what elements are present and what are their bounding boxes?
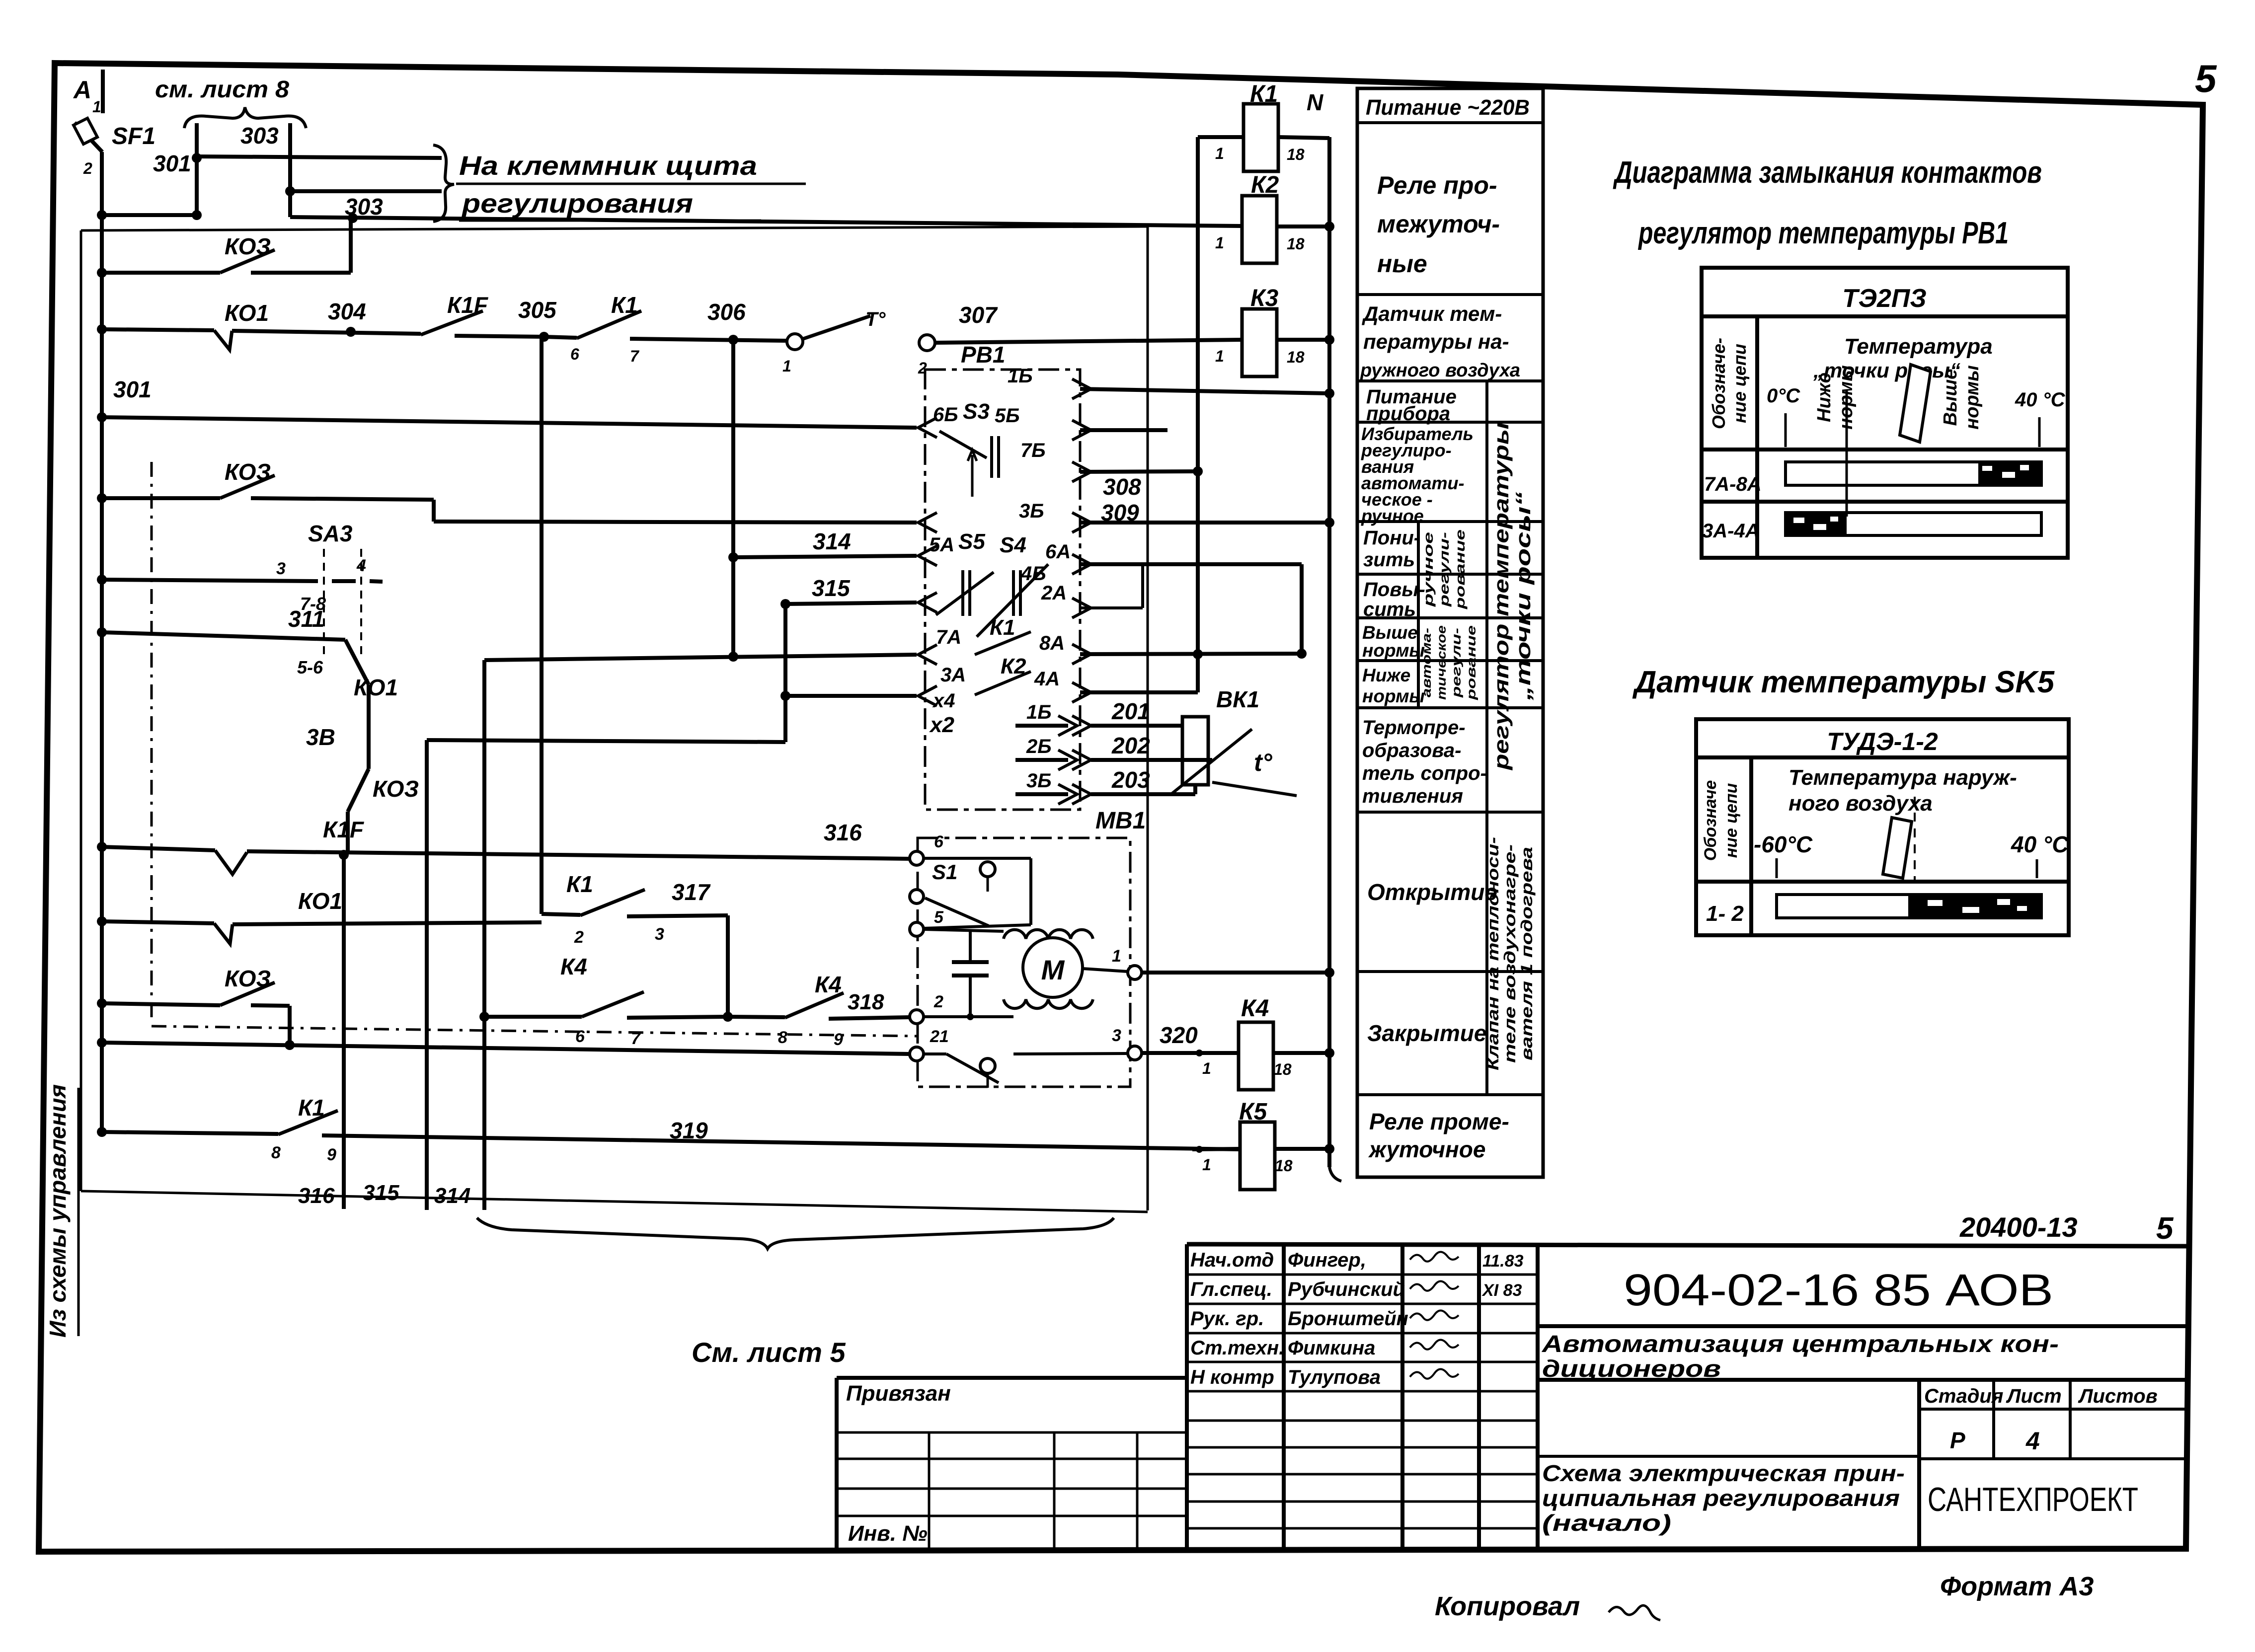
svg-text:305: 305 [518,297,557,323]
svg-text:304: 304 [328,299,366,324]
svg-text:Термопре-: Термопре- [1362,717,1466,739]
svg-text:ТЭ2ПЗ: ТЭ2ПЗ [1842,284,1927,313]
svg-text:40 °С: 40 °С [2011,831,2069,857]
svg-text:318: 318 [848,990,884,1014]
svg-text:Реле проме-: Реле проме- [1369,1109,1509,1134]
svg-text:Питание ~220В: Питание ~220В [1366,95,1530,120]
svg-text:К4: К4 [815,972,842,997]
svg-text:6: 6 [575,1027,585,1046]
svg-text:ручное: ручное [1421,532,1436,607]
svg-text:РВ1: РВ1 [961,342,1005,368]
svg-text:КО1: КО1 [354,675,398,700]
svg-text:1: 1 [1215,145,1224,162]
svg-text:2Б: 2Б [1026,736,1052,757]
svg-text:ружного воздуха: ружного воздуха [1360,360,1520,381]
svg-text:18: 18 [1287,235,1305,253]
svg-text:Диаграмма замыкания контакто: Диаграмма замыкания контактов [1613,155,2042,190]
svg-text:1: 1 [1215,347,1224,365]
svg-text:ные: ные [1377,250,1427,278]
svg-text:1Б: 1Б [1008,365,1033,387]
svg-text:7А-8А: 7А-8А [1704,473,1762,495]
svg-text:5: 5 [2156,1211,2174,1246]
svg-text:Рубчинский: Рубчинский [1288,1278,1405,1300]
svg-text:3В: 3В [306,724,335,750]
svg-text:тивления: тивления [1362,785,1463,807]
svg-text:1: 1 [1202,1156,1211,1174]
svg-text:регулирования: регулирования [461,189,693,219]
svg-text:320: 320 [1160,1022,1198,1048]
svg-text:Фимкина: Фимкина [1288,1337,1375,1359]
svg-text:автома-: автома- [1420,628,1434,697]
svg-text:Ниже: Ниже [1362,665,1410,685]
svg-text:2: 2 [933,992,943,1011]
svg-text:ние цепи: ние цепи [1722,783,1741,858]
svg-text:Листов: Листов [2078,1385,2158,1407]
svg-text:4А: 4А [1034,668,1060,690]
svg-text:203: 203 [1111,767,1150,793]
svg-text:ципиальная регулирования: ципиальная регулирования [1542,1485,1900,1511]
svg-text:8: 8 [271,1143,281,1162]
svg-text:5: 5 [2195,57,2217,100]
svg-text:Закрытие: Закрытие [1367,1020,1486,1046]
svg-text:317: 317 [672,879,711,905]
svg-text:308: 308 [1103,474,1141,500]
svg-text:х2: х2 [929,713,954,737]
svg-text:307: 307 [959,302,998,328]
svg-text:1: 1 [1112,947,1121,966]
svg-text:3: 3 [1112,1026,1121,1045]
svg-text:21: 21 [930,1027,949,1046]
svg-text:ВК1: ВК1 [1216,686,1259,712]
svg-text:Лист: Лист [2006,1385,2062,1407]
svg-text:3: 3 [655,925,664,944]
svg-text:вателя 1 подогрева: вателя 1 подогрева [1518,847,1536,1060]
svg-text:КО1: КО1 [225,300,269,326]
svg-text:5: 5 [934,908,944,927]
svg-text:7Б: 7Б [1020,440,1046,461]
svg-text:319: 319 [670,1118,708,1143]
svg-text:образова-: образова- [1362,740,1461,761]
svg-text:Обозначе-: Обозначе- [1709,338,1729,429]
svg-text:К1: К1 [611,292,638,318]
svg-text:САНТЕХПРОЕКТ: САНТЕХПРОЕКТ [1928,1481,2138,1518]
svg-text:теле воздухонагре-: теле воздухонагре- [1501,844,1519,1063]
svg-text:нормы: нормы [1836,365,1857,429]
svg-text:нормы: нормы [1362,640,1425,661]
svg-text:Выше: Выше [1940,369,1961,426]
svg-text:9: 9 [327,1145,336,1164]
svg-text:Бронштейн: Бронштейн [1288,1308,1408,1330]
svg-text:201: 201 [1111,698,1150,724]
svg-text:пературы на-: пературы на- [1363,330,1509,353]
svg-text:8: 8 [778,1028,787,1047]
svg-text:3А-4А: 3А-4А [1702,520,1760,542]
svg-text:Формат А3: Формат А3 [1940,1572,2094,1601]
svg-text:309: 309 [1101,500,1139,526]
svg-text:18: 18 [1287,146,1305,163]
svg-text:К1: К1 [990,615,1015,640]
svg-text:(начало): (начало) [1542,1510,1671,1536]
svg-text:Обозначе: Обозначе [1701,780,1720,861]
svg-text:КОЗ: КОЗ [225,459,271,485]
svg-text:1: 1 [1215,234,1224,252]
svg-text:4: 4 [356,556,366,575]
svg-text:нормы: нормы [1362,686,1425,706]
svg-text:К1: К1 [566,871,593,897]
svg-text:311: 311 [288,606,324,632]
svg-text:202: 202 [1111,733,1150,758]
svg-text:4: 4 [2025,1427,2040,1455]
svg-text:рование: рование [1453,529,1468,609]
svg-text:Тулупова: Тулупова [1288,1366,1381,1388]
svg-text:316: 316 [824,820,862,845]
svg-text:См. лист 5: См. лист 5 [692,1337,846,1368]
svg-text:МВ1: МВ1 [1095,808,1146,834]
svg-text:5-6: 5-6 [297,657,323,677]
svg-text:306: 306 [707,299,746,325]
svg-text:3А: 3А [940,664,966,686]
svg-text:Стадия: Стадия [1924,1385,2003,1407]
svg-text:Инв. №: Инв. № [848,1521,928,1546]
svg-text:Температура наруж-: Температура наруж- [1788,765,2017,790]
svg-text:КОЗ: КОЗ [225,966,271,991]
svg-text:х4: х4 [932,690,955,712]
svg-text:межуточ-: межуточ- [1377,210,1500,238]
svg-text:7: 7 [631,1029,641,1048]
svg-text:1: 1 [92,98,101,116]
svg-text:7: 7 [630,347,640,365]
svg-text:3Б: 3Б [1026,770,1052,792]
svg-text:S4: S4 [1000,533,1026,557]
svg-text:На клеммник щита: На клеммник щита [459,151,757,181]
svg-text:Датчик температуры SK5: Датчик температуры SK5 [1632,665,2055,699]
svg-text:Ниже: Ниже [1814,373,1835,422]
svg-text:регулятор температуры РВ1: регулятор температуры РВ1 [1637,216,2009,250]
svg-text:Автоматизация центральных ко: Автоматизация центральных кон- [1542,1331,2059,1357]
svg-text:7А: 7А [936,626,961,648]
svg-text:Температура: Температура [1844,334,1993,359]
svg-text:9: 9 [834,1030,843,1049]
svg-text:t°: t° [1254,749,1273,776]
svg-text:Н контр: Н контр [1190,1366,1274,1388]
svg-text:SF1: SF1 [112,123,156,150]
svg-text:К4: К4 [560,954,587,979]
svg-text:18: 18 [1275,1157,1293,1175]
svg-text:Т°: Т° [865,308,886,330]
svg-text:2: 2 [83,159,92,177]
svg-text:6: 6 [934,832,944,851]
svg-text:жуточное: жуточное [1368,1136,1485,1162]
svg-text:2А: 2А [1041,582,1067,604]
svg-text:S5: S5 [958,529,985,554]
svg-text:ТУДЭ-1-2: ТУДЭ-1-2 [1827,728,1938,755]
svg-text:316: 316 [298,1184,335,1208]
svg-text:1: 1 [1202,1059,1211,1077]
svg-text:20400-13: 20400-13 [1959,1211,2078,1243]
svg-text:Рук. гр.: Рук. гр. [1190,1308,1264,1330]
svg-text:Реле про-: Реле про- [1377,171,1497,199]
svg-text:314: 314 [434,1184,470,1208]
svg-text:К1F: К1F [447,292,489,318]
svg-text:Клапан на теплоноси-: Клапан на теплоноси- [1484,837,1502,1070]
svg-text:1- 2: 1- 2 [1706,901,1744,926]
svg-text:Пони-: Пони- [1363,527,1420,549]
svg-text:„точки росы“: „точки росы“ [1813,359,1960,382]
svg-text:тическое: тическое [1435,625,1449,700]
svg-text:Повы-: Повы- [1363,579,1425,601]
svg-text:315: 315 [812,575,851,601]
svg-text:К1: К1 [298,1095,325,1121]
svg-text:SA3: SA3 [308,521,353,546]
svg-text:ного воздуха: ного воздуха [1788,791,1933,816]
svg-text:тель сопро-: тель сопро- [1362,762,1487,784]
svg-text:40 °С: 40 °С [2015,389,2066,411]
svg-text:рование: рование [1465,625,1478,701]
svg-text:ние цепи: ние цепи [1729,344,1750,423]
svg-text:904-02-16 85 АОВ: 904-02-16 85 АОВ [1624,1266,2053,1315]
svg-text:регули-: регули- [1437,532,1452,607]
svg-text:Гл.спец.: Гл.спец. [1190,1278,1272,1300]
svg-text:6: 6 [570,345,579,363]
svg-text:ручное: ручное [1361,506,1424,526]
svg-text:-60°С: -60°С [1754,831,1813,857]
svg-text:5А: 5А [929,534,954,556]
svg-text:А: А [73,76,91,104]
svg-text:2: 2 [574,928,584,947]
svg-text:5Б: 5Б [995,405,1020,427]
svg-text:Выше: Выше [1362,622,1418,643]
svg-text:1Б: 1Б [1026,701,1052,723]
svg-text:Из схемы управления: Из схемы управления [45,1084,71,1338]
svg-text:КОЗ: КОЗ [225,233,271,259]
svg-text:„точки росы“: „точки росы“ [1511,492,1535,701]
svg-text:нормы: нормы [1962,365,1983,429]
svg-text:регулятор температуры: регулятор температуры [1489,422,1513,770]
svg-text:Нач.отд: Нач.отд [1190,1249,1274,1271]
svg-text:301: 301 [153,150,191,176]
svg-text:КОЗ: КОЗ [373,776,419,802]
svg-text:8А: 8А [1039,632,1065,654]
svg-text:315: 315 [363,1181,399,1205]
svg-text:Датчик тем-: Датчик тем- [1362,302,1502,325]
svg-text:1: 1 [782,357,791,375]
svg-text:К1F: К1F [323,817,365,842]
svg-text:прибора: прибора [1366,403,1450,425]
svg-text:6Б: 6Б [933,404,958,426]
svg-text:Р: Р [1950,1427,1965,1453]
svg-text:см. лист 8: см. лист 8 [155,76,289,103]
svg-text:3: 3 [276,559,286,578]
svg-text:301: 301 [113,376,152,402]
svg-text:303: 303 [240,123,279,149]
svg-text:регули-: регули- [1450,628,1464,698]
svg-text:XI 83: XI 83 [1481,1281,1522,1300]
svg-text:18: 18 [1287,348,1305,366]
svg-text:11.83: 11.83 [1482,1252,1524,1271]
svg-text:Ст.техн.: Ст.техн. [1190,1337,1284,1359]
svg-text:6А: 6А [1045,541,1071,563]
svg-text:N: N [1307,89,1323,115]
svg-text:К4: К4 [1241,995,1269,1022]
svg-text:0°С: 0°С [1767,385,1800,407]
svg-text:S1: S1 [932,860,957,884]
svg-text:сить: сить [1363,599,1416,620]
svg-text:М: М [1041,954,1065,985]
svg-text:3Б: 3Б [1019,500,1044,522]
svg-text:зить: зить [1363,549,1415,571]
svg-text:Открытие: Открытие [1367,879,1497,905]
svg-text:Копировал: Копировал [1435,1591,1580,1621]
svg-text:Фингер,: Фингер, [1288,1249,1366,1271]
svg-text:Привязан: Привязан [846,1381,951,1406]
svg-text:S3: S3 [963,399,990,424]
svg-text:КО1: КО1 [298,888,342,914]
svg-text:18: 18 [1274,1060,1292,1078]
svg-text:Схема электрическая прин-: Схема электрическая прин- [1542,1460,1905,1486]
svg-text:314: 314 [813,528,851,554]
